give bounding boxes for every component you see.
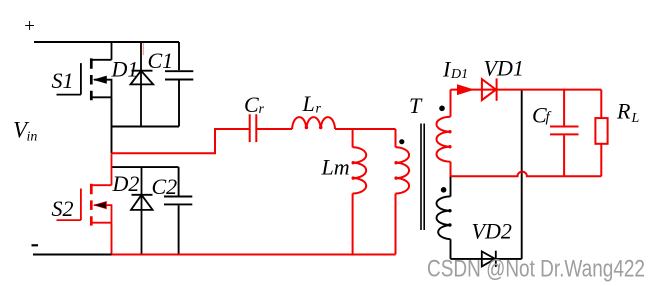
inductor Lm (magnetizing)	[353, 129, 367, 255]
node - (negative input terminal label)	[32, 244, 39, 246]
node primary polarity dot	[399, 139, 404, 144]
capacitor C2	[164, 167, 192, 254]
svg-text:+: +	[23, 16, 36, 37]
svg-text:C1: C1	[148, 48, 174, 73]
transistor S1	[57, 42, 112, 100]
label VD2	[472, 219, 512, 244]
label S1	[52, 68, 74, 93]
label D1	[111, 56, 139, 81]
svg-text:S2: S2	[52, 196, 74, 221]
current arrow ID1	[457, 84, 475, 95]
label Lm	[321, 155, 350, 180]
transformer secondary bottom winding (black)	[436, 176, 450, 259]
diode D2 (body diode of S2)	[131, 167, 153, 254]
wire top input rail	[34, 41, 179, 43]
transformer secondary top winding (red)	[437, 90, 451, 177]
node + (positive input terminal label)	[23, 16, 36, 37]
transformer T core	[421, 124, 424, 231]
wire S1 source to midpoint node	[111, 97, 113, 153]
diode VD1	[482, 78, 497, 100]
svg-text:in: in	[27, 129, 38, 144]
svg-text:CSDN @Not Dr.Wang422: CSDN @Not Dr.Wang422	[427, 256, 645, 283]
label ID1	[442, 56, 468, 82]
wire VD2 branch (black)	[451, 90, 522, 259]
label VD1	[484, 55, 524, 80]
svg-text:C: C	[244, 92, 259, 117]
label Cf	[532, 103, 552, 128]
transistor S2	[57, 153, 112, 225]
label Vin	[13, 118, 37, 145]
svg-text:L: L	[631, 111, 640, 126]
label T	[409, 93, 423, 118]
svg-text:D2: D2	[112, 171, 140, 196]
svg-text:C2: C2	[152, 174, 178, 199]
svg-text:Lm: Lm	[321, 155, 350, 180]
capacitor C1	[165, 42, 193, 127]
wire midpoint node to resonant tank (red)	[112, 129, 250, 153]
svg-text:VD1: VD1	[484, 55, 524, 80]
svg-text:r: r	[316, 102, 322, 117]
svg-text:D1: D1	[450, 67, 468, 82]
inductor Lr	[292, 117, 395, 129]
svg-text:VD2: VD2	[472, 219, 512, 244]
svg-text:L: L	[302, 91, 315, 116]
svg-text:r: r	[259, 102, 265, 117]
svg-text:R: R	[616, 99, 631, 124]
svg-text:S1: S1	[52, 68, 74, 93]
svg-text:D1: D1	[111, 56, 139, 81]
transformer T primary winding	[396, 129, 410, 255]
capacitor Cf	[550, 90, 579, 177]
node secondary top polarity dot	[439, 106, 445, 112]
capacitor Cr	[250, 114, 292, 142]
wire center-tap return rail with hop (red)	[451, 172, 602, 177]
diode VD2	[482, 251, 496, 267]
wire secondary output top rail (red)	[451, 89, 602, 91]
label Lr	[302, 91, 322, 117]
diode D1 (body diode of S1)	[131, 42, 154, 127]
wire bottom input rail (black part)	[33, 254, 112, 256]
wire top of S2 cell	[112, 166, 179, 168]
node secondary bottom polarity dot	[441, 187, 447, 193]
label Cr	[244, 92, 265, 117]
wire bottom of S1 cell	[112, 126, 180, 128]
label S2	[52, 196, 74, 221]
wire S2 source to bottom rail	[111, 223, 113, 255]
wire red artifact at D1	[142, 43, 144, 55]
label C2	[152, 174, 178, 199]
label C1	[148, 48, 174, 73]
label D2	[112, 171, 140, 196]
resistor RL	[595, 90, 607, 177]
svg-text:T: T	[409, 93, 423, 118]
wire bottom rail (red part)	[112, 254, 396, 256]
label RL	[616, 99, 640, 126]
